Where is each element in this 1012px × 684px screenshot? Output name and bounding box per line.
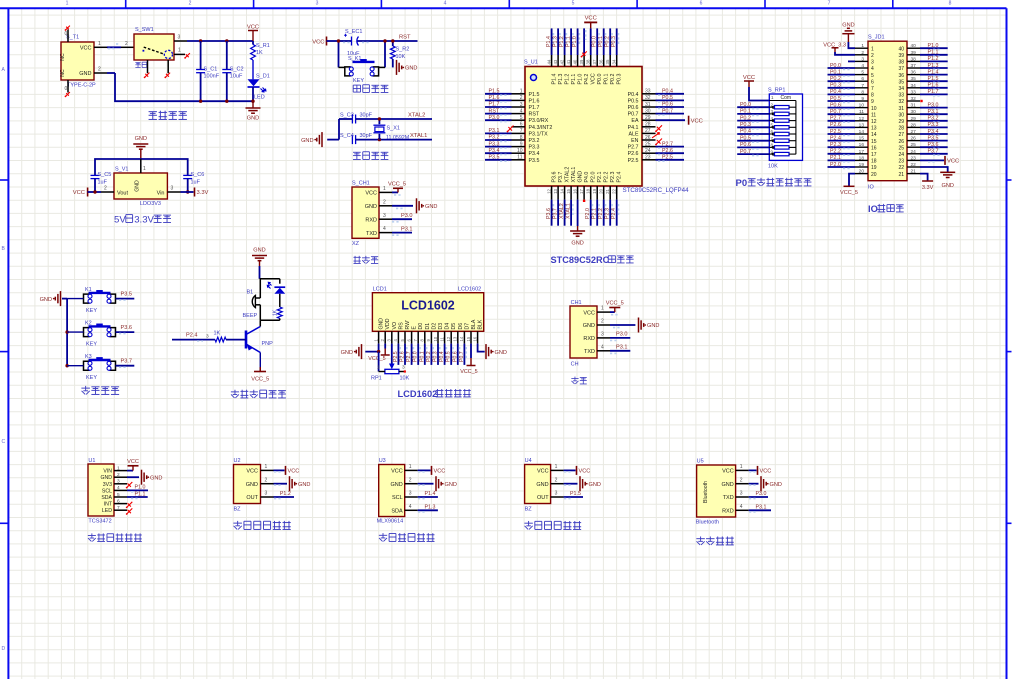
wire net P3.5 from K1	[116, 292, 135, 301]
svg-text:1: 1	[117, 465, 120, 471]
pin 13 left of S_JD1	[855, 122, 877, 131]
svg-text:33: 33	[911, 89, 917, 95]
svg-text:P1.0: P1.0	[578, 74, 584, 85]
svg-text:P0.4: P0.4	[662, 89, 673, 95]
wire net P2.5 to JD1 pin 14	[828, 129, 856, 136]
pin 44 P1.4 top of U1	[546, 28, 558, 84]
svg-text:SCL: SCL	[102, 488, 112, 494]
svg-text:3: 3	[740, 491, 743, 497]
svg-text:24: 24	[645, 148, 651, 154]
caption reset circuit	[353, 85, 388, 93]
svg-text:IO: IO	[868, 185, 875, 191]
pin 2 Vout of S_V1	[101, 186, 114, 193]
pin 9 left of S_JD1	[855, 96, 874, 105]
svg-text:VCC: VCC	[365, 191, 377, 197]
svg-text:22: 22	[911, 162, 917, 168]
resistor element 2 of S_RP1 net P0.1	[737, 109, 796, 116]
svg-text:P2.2: P2.2	[604, 172, 610, 183]
pin 40 right of S_JD1	[898, 43, 920, 52]
svg-text:29: 29	[645, 115, 651, 121]
no connect INT of U1 sensor	[126, 502, 133, 509]
pin 1 VIN of U1 sensor	[103, 465, 127, 474]
svg-text:32: 32	[911, 96, 917, 102]
svg-text:P3.1: P3.1	[616, 345, 628, 351]
ground GND at U1 sensor pin2	[127, 470, 162, 485]
pin 1 of S_SW1 unconnected	[174, 48, 190, 59]
svg-text:S_U1: S_U1	[524, 60, 538, 66]
pin 22 P2.4 bottom of U1	[611, 172, 623, 226]
svg-text:10K: 10K	[768, 164, 778, 170]
wire net P1.2 at U2 pin3	[261, 491, 295, 499]
pin 17 left of S_JD1	[855, 149, 877, 158]
svg-text:31: 31	[645, 102, 651, 108]
connector S_T1 TYPE-C-2P	[60, 35, 96, 89]
svg-text:P0.5: P0.5	[830, 96, 841, 102]
wire net P3.1 at U5 pin4	[736, 504, 771, 512]
svg-text:P3.3: P3.3	[529, 145, 540, 151]
svg-text:17: 17	[579, 188, 584, 193]
svg-text:100nF: 100nF	[204, 74, 220, 80]
svg-text:P3.5: P3.5	[529, 158, 540, 164]
power VCC_5 of alarm circuit	[251, 367, 269, 383]
connector S_JD1 body	[868, 35, 907, 191]
svg-text:30: 30	[645, 108, 651, 114]
svg-text:GND: GND	[583, 323, 595, 329]
svg-text:1K: 1K	[272, 309, 278, 316]
key switch K1	[67, 287, 115, 314]
svg-text:GND: GND	[721, 482, 733, 488]
svg-text:18: 18	[585, 188, 590, 193]
svg-text:XTAL1: XTAL1	[571, 167, 577, 183]
svg-text:16: 16	[871, 145, 877, 151]
svg-text:S_R2: S_R2	[396, 47, 410, 53]
svg-text:P2.7: P2.7	[830, 116, 841, 122]
svg-text:D: D	[2, 646, 6, 652]
pin 0 top of S_T1	[65, 26, 70, 42]
svg-text:8: 8	[520, 135, 523, 141]
pin 3 Vin of S_V1	[167, 186, 180, 193]
wire net P2.4 to JD1 pin 15	[828, 135, 856, 142]
sensor U3 MLX90614 body	[377, 458, 405, 525]
wire LCD pin3 to potentiometer wiper	[391, 344, 393, 364]
connector CH1 serial	[570, 300, 597, 368]
net label XTAL1	[410, 133, 427, 139]
pin 32 right of S_JD1	[898, 96, 920, 105]
ground GND to JD1 pin 22	[920, 167, 955, 189]
svg-text:P3.2: P3.2	[529, 138, 540, 144]
resistor element 4 of S_RP1 net P0.3	[737, 122, 796, 129]
wire JD1 pin 3 stub	[848, 60, 855, 62]
svg-text:37: 37	[592, 59, 597, 64]
wire net P3.5 to JD1 pin 26	[920, 135, 948, 142]
svg-text:D4: D4	[445, 323, 451, 330]
svg-text:17: 17	[859, 149, 865, 155]
capacitor S_C6 1uF	[183, 172, 204, 194]
wire net P1.4 at U3 pin3	[405, 491, 438, 499]
svg-text:2: 2	[265, 477, 268, 483]
svg-text:P4.2: P4.2	[584, 74, 590, 85]
pin 32 P0.5 right of U1	[628, 95, 684, 104]
wire net P3.6 from K2	[116, 325, 135, 334]
svg-text:GND: GND	[40, 297, 52, 303]
svg-text:VO: VO	[392, 322, 398, 330]
svg-text:S_SW1: S_SW1	[135, 27, 154, 33]
pin 2 left of S_JD1	[855, 50, 874, 59]
svg-text:RW': RW'	[405, 320, 411, 330]
svg-text:TXD: TXD	[584, 349, 595, 355]
svg-text:6: 6	[861, 76, 864, 82]
svg-text:1K: 1K	[214, 331, 221, 337]
pin 24 right of S_JD1	[898, 149, 920, 158]
ground GND right of LCD	[486, 344, 507, 359]
svg-text:P3.4: P3.4	[489, 148, 500, 154]
ground GND at U4 pin2	[551, 476, 601, 491]
caption P0 pullup circuit	[736, 178, 812, 189]
wire crystal left branch	[338, 119, 340, 140]
pin 2 P1.6 left of U1	[485, 95, 539, 104]
svg-text:VCC: VCC	[743, 75, 755, 81]
svg-text:P2.6: P2.6	[662, 148, 673, 154]
svg-text:NC: NC	[60, 53, 66, 61]
svg-text:34: 34	[898, 86, 904, 92]
potentiometer RP1 10K	[371, 352, 410, 382]
power VCC_5 at LCD pin15	[460, 344, 477, 375]
svg-text:20: 20	[871, 172, 877, 178]
svg-text:EN: EN	[631, 138, 639, 144]
pin 1 P1.5 left of U1	[485, 89, 539, 98]
pin 4 RS of LCD1	[393, 322, 405, 365]
resistor element 6 of S_RP1 net P0.5	[737, 135, 796, 142]
svg-text:P0.4: P0.4	[740, 129, 751, 135]
svg-text:P0.5: P0.5	[740, 135, 751, 141]
pin 7 P3.1/TX left of U1	[485, 128, 548, 137]
no connect JD1 pin 32	[920, 100, 922, 102]
svg-text:GND: GND	[135, 136, 147, 142]
key bus wire	[65, 299, 68, 368]
svg-text:P0: P0	[736, 178, 748, 189]
ground GND below U1	[570, 226, 585, 247]
power VCC to JD1 pin 23	[920, 156, 959, 165]
caption power circuit	[149, 111, 187, 120]
pin 30 P0.7 right of U1	[628, 108, 684, 117]
svg-text:7: 7	[871, 86, 874, 92]
svg-text:P0.7: P0.7	[740, 149, 751, 155]
svg-text:40: 40	[911, 43, 917, 49]
svg-text:P2.5: P2.5	[628, 158, 639, 164]
svg-text:38: 38	[585, 59, 590, 64]
svg-text:28: 28	[911, 122, 917, 128]
crystal S_X1 11.0592M	[373, 117, 409, 141]
svg-text:BZ: BZ	[525, 507, 533, 513]
svg-text:1: 1	[98, 41, 101, 47]
pin 3 3V3 of U1 sensor	[103, 479, 127, 488]
svg-text:12: 12	[446, 336, 451, 341]
svg-text:3: 3	[265, 491, 268, 497]
svg-text:STC89C52RC: STC89C52RC	[551, 255, 610, 265]
svg-text:3: 3	[171, 186, 174, 192]
pin 23 P2.5 right of U1	[628, 155, 684, 164]
svg-text:CH: CH	[571, 362, 579, 368]
svg-text:11: 11	[859, 109, 864, 115]
pin 16 GND bottom of U1	[572, 171, 583, 226]
svg-text:BZ: BZ	[234, 507, 242, 513]
svg-text:P0.1: P0.1	[830, 69, 841, 75]
svg-text:GND: GND	[941, 183, 953, 189]
svg-text:VDD: VDD	[385, 318, 391, 329]
svg-text:2: 2	[189, 1, 192, 7]
resistor element 8 of S_RP1 net P0.7	[737, 149, 796, 156]
wire net P3.0 at U5 pin3	[736, 491, 768, 499]
svg-text:P0.1: P0.1	[740, 109, 751, 115]
svg-text:P2.1: P2.1	[830, 155, 841, 161]
ground GND left of LCD	[341, 344, 362, 359]
net label RST	[385, 35, 418, 42]
svg-text:VCC_5: VCC_5	[368, 356, 385, 362]
ground GND at U2 pin2	[261, 476, 311, 491]
pin 1 of S_CH1 to VCC_5	[379, 182, 406, 196]
svg-text:VCC_5: VCC_5	[251, 377, 269, 383]
pin 15 XTAL1 bottom of U1	[566, 167, 578, 226]
caption main chip	[551, 255, 634, 265]
svg-text:VCC: VCC	[312, 39, 324, 45]
LED S_D1	[248, 74, 270, 101]
svg-text:1: 1	[740, 464, 743, 470]
wire net P0.5 to JD1 pin 9	[828, 96, 856, 103]
wire LCD pin16 to GND	[478, 344, 485, 352]
svg-text:VCC_5: VCC_5	[460, 369, 477, 375]
svg-text:P2.4: P2.4	[611, 208, 617, 219]
wire net P0.3 to JD1 pin 7	[828, 83, 856, 90]
svg-text:14: 14	[459, 336, 464, 341]
svg-text:S_C6: S_C6	[191, 172, 205, 178]
pin 28 right of S_JD1	[898, 122, 920, 131]
wire net P1.0 to JD1 pin 40	[920, 43, 948, 50]
svg-text:GND: GND	[365, 204, 377, 210]
pin 3 of S_CH1 net P3.0	[379, 213, 413, 222]
svg-text:22: 22	[612, 188, 617, 193]
svg-text:3: 3	[117, 479, 120, 485]
pin 15 left of S_JD1	[855, 136, 877, 145]
wire net P3.1 to JD1 pin 30	[920, 109, 948, 116]
pin 20 left of S_JD1	[855, 169, 877, 178]
pin 12 left of S_JD1	[855, 116, 877, 125]
svg-text:P1.3: P1.3	[928, 63, 939, 69]
svg-text:24: 24	[911, 149, 917, 155]
svg-text:29: 29	[898, 119, 904, 125]
svg-text:P2.0: P2.0	[591, 172, 597, 183]
resistor element 1 of S_RP1 net P0.0	[737, 102, 796, 109]
wire net P3.4 to JD1 pin 27	[920, 129, 948, 136]
svg-text:P0.5: P0.5	[628, 98, 639, 104]
svg-text:Bluetooth: Bluetooth	[703, 481, 709, 503]
svg-text:1: 1	[383, 186, 386, 192]
resistor S_R2 10K	[390, 39, 409, 67]
svg-text:5: 5	[117, 492, 120, 498]
wire net P2.1 to JD1 pin 18	[828, 155, 856, 162]
svg-text:P3.6: P3.6	[552, 172, 558, 183]
svg-text:P1.4: P1.4	[546, 36, 552, 47]
caption serial port	[571, 377, 586, 384]
svg-text:P1.3: P1.3	[553, 36, 559, 47]
svg-text:GND: GND	[247, 116, 259, 122]
svg-text:16: 16	[472, 336, 477, 341]
svg-text:P2.3: P2.3	[605, 208, 611, 219]
pin 35 right of S_JD1	[898, 76, 920, 85]
ground GND of key circuit	[40, 291, 68, 306]
svg-text:27: 27	[645, 128, 651, 134]
capacitor S_EC1 10uF electrolytic	[344, 29, 362, 57]
power VCC at U1 sensor pin1	[127, 459, 139, 471]
svg-text:P3.0: P3.0	[401, 213, 413, 219]
pin 1 VCC of S_T1	[94, 41, 107, 48]
svg-text:11: 11	[439, 336, 444, 341]
key switch K3	[67, 354, 115, 381]
pin 18 P2.0 bottom of U1	[585, 172, 597, 226]
svg-text:S_X1: S_X1	[387, 126, 400, 132]
power VCC of pullup network	[743, 75, 769, 101]
pin 4 of CH1 net P3.1	[597, 344, 630, 353]
pin 37 right of S_JD1	[898, 63, 920, 72]
pin 5 RW' of LCD1	[400, 320, 412, 365]
svg-text:P0.6: P0.6	[662, 102, 673, 108]
svg-text:7: 7	[828, 1, 831, 7]
svg-text:D0: D0	[418, 323, 424, 330]
svg-text:P3.5: P3.5	[928, 135, 939, 141]
module U5 Bluetooth body	[696, 459, 736, 526]
svg-text:GND: GND	[246, 482, 258, 488]
svg-text:23: 23	[911, 155, 917, 161]
pin 34 P0.3 top of U1	[611, 28, 623, 84]
svg-text:7: 7	[117, 505, 120, 511]
power VCC at U4 pin1	[551, 464, 591, 475]
key switch K2	[67, 321, 115, 348]
svg-text:15: 15	[466, 336, 471, 341]
pin 31 right of S_JD1	[898, 103, 920, 112]
svg-text:4: 4	[601, 344, 604, 350]
svg-text:P1.7: P1.7	[489, 102, 500, 108]
pin 2 left of S_SW1	[121, 41, 134, 48]
svg-text:35: 35	[605, 59, 610, 64]
wire net P2.2 to JD1 pin 17	[828, 149, 856, 156]
svg-text:KEY: KEY	[86, 308, 97, 314]
svg-text:17: 17	[871, 152, 877, 158]
pin 39 P4.2 top of U1	[579, 28, 590, 84]
svg-text:P1.0: P1.0	[572, 36, 578, 47]
svg-text:P3.0: P3.0	[616, 332, 628, 338]
svg-text:P0.2: P0.2	[740, 115, 751, 121]
svg-text:35: 35	[911, 76, 917, 82]
capacitor S_C2 10uF	[222, 41, 243, 101]
pin 34 right of S_JD1	[898, 83, 920, 92]
pin 3 VO of LCD1	[387, 322, 398, 344]
svg-text:18: 18	[871, 159, 877, 165]
resistor element 5 of S_RP1 net P0.4	[737, 129, 796, 136]
svg-text:S_C1: S_C1	[204, 67, 218, 73]
svg-text:2: 2	[383, 199, 386, 205]
svg-text:VCC: VCC	[246, 469, 258, 475]
svg-text:OUT: OUT	[246, 495, 258, 501]
svg-text:P1.0: P1.0	[135, 485, 146, 491]
resistor network S_RP1 body	[768, 88, 803, 170]
svg-text:23: 23	[645, 155, 651, 161]
svg-text:P2.3: P2.3	[830, 142, 841, 148]
ground GND of crystal circuit	[301, 132, 339, 147]
ground GND above JD1 pin 1	[842, 23, 855, 49]
svg-text:P0.0: P0.0	[740, 102, 751, 108]
pin 3 left of S_JD1	[855, 56, 874, 65]
svg-text:30pF: 30pF	[360, 133, 373, 139]
S_SW1 bottom pin b	[164, 60, 170, 78]
wire net P2.7 to JD1 pin 12	[828, 116, 856, 123]
svg-text:19: 19	[859, 162, 865, 168]
svg-text:ALE: ALE	[628, 131, 638, 137]
svg-text:P3.3: P3.3	[928, 122, 939, 128]
caption IR temperature module	[379, 533, 435, 541]
power VCC_3.3 to JD1 pin 2	[823, 42, 855, 55]
svg-text:34: 34	[612, 59, 617, 64]
svg-text:GND: GND	[298, 482, 310, 488]
svg-text:P2.0: P2.0	[830, 162, 841, 168]
svg-text:GND: GND	[425, 204, 437, 210]
svg-text:P3.3: P3.3	[489, 141, 500, 147]
svg-text:P0.6: P0.6	[628, 105, 639, 111]
pin 9 D2 of LCD1	[426, 323, 438, 365]
svg-text:1uF: 1uF	[98, 180, 108, 186]
pin 27 right of S_JD1	[898, 129, 920, 138]
pin 8 P3.2 left of U1	[485, 135, 539, 144]
pin 24 P2.6 right of U1	[628, 148, 684, 157]
buzzer B1 BEEP	[243, 279, 261, 320]
svg-text:LCD1: LCD1	[373, 287, 387, 293]
pin 2 VDD of LCD1	[380, 318, 391, 343]
svg-text:BLK: BLK	[478, 319, 484, 329]
svg-text:U1: U1	[88, 458, 95, 464]
pin 0 bottom of S_T1	[65, 80, 70, 97]
svg-text:P0.3: P0.3	[617, 74, 623, 85]
svg-text:10: 10	[517, 148, 523, 154]
power VCC_5 below JD1 pin 20	[840, 174, 858, 196]
power 3.3V right of LDO	[181, 188, 209, 197]
caption IO expansion port	[868, 203, 904, 214]
wire net P3.7 to JD1 pin 24	[920, 149, 948, 156]
svg-text:1: 1	[143, 166, 146, 172]
svg-text:P2.3: P2.3	[610, 172, 616, 183]
svg-text:P1.5: P1.5	[928, 76, 939, 82]
svg-text:5: 5	[572, 1, 575, 7]
svg-text:4: 4	[740, 504, 743, 510]
wire net P1.5 at U4 pin3	[551, 491, 583, 499]
pin 1 of CH1 to VCC_5	[597, 301, 624, 315]
power 3.3V to JD1 pin 21	[920, 174, 934, 191]
pin 40 P1.0 top of U1	[572, 28, 584, 84]
pin 1 GND of S_V1	[141, 159, 146, 173]
resistor element 3 of S_RP1 net P0.2	[737, 115, 796, 122]
svg-text:1: 1	[871, 46, 874, 52]
pin 19 P2.1 bottom of U1	[592, 172, 604, 226]
pin 25 P2.7 right of U1	[628, 141, 684, 150]
pin 7 D0 of LCD1	[413, 323, 425, 365]
wire reset top rail	[339, 41, 386, 43]
svg-text:GND: GND	[589, 482, 601, 488]
svg-text:P3.0/RX: P3.0/RX	[529, 118, 549, 124]
svg-text:TXD: TXD	[366, 231, 377, 237]
svg-text:P2.0: P2.0	[585, 208, 591, 219]
svg-text:P2.1: P2.1	[597, 172, 603, 183]
svg-text:P1.6: P1.6	[489, 95, 500, 101]
svg-text:P3.1: P3.1	[489, 128, 500, 134]
svg-text:1uF: 1uF	[191, 180, 201, 186]
svg-text:SCL: SCL	[392, 495, 403, 501]
